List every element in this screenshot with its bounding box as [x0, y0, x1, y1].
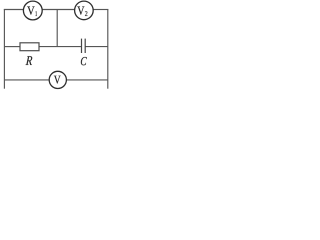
wire top rail middle segment — [42, 9, 74, 11]
resistor R — [20, 43, 39, 51]
wire vertical tap from top rail to node between R and C — [56, 10, 58, 47]
wire bottom rail right segment — [66, 79, 108, 81]
wire middle rail between R and C — [39, 46, 82, 48]
voltmeter V label — [54, 76, 61, 84]
resistor R value label — [26, 56, 33, 65]
wire right edge — [107, 10, 109, 89]
wire top rail right segment — [93, 9, 108, 11]
wire middle rail left segment — [4, 46, 20, 48]
voltmeter V1 — [23, 1, 42, 20]
voltmeter V2 — [75, 1, 94, 20]
wire left edge — [3, 10, 5, 89]
voltmeter V2 label subscript 2 — [85, 11, 87, 16]
capacitor C left plate — [81, 39, 83, 53]
voltmeter V — [49, 71, 66, 88]
voltmeter V2 label V — [77, 7, 84, 15]
voltmeter V1 label V — [27, 7, 34, 15]
wire top rail left segment — [4, 9, 24, 11]
wire middle rail right segment — [85, 46, 108, 48]
capacitor C right plate — [84, 39, 86, 53]
capacitor C value label — [81, 57, 87, 65]
voltmeter V1 label subscript 1 — [35, 11, 37, 16]
wire bottom rail left segment — [4, 79, 49, 81]
